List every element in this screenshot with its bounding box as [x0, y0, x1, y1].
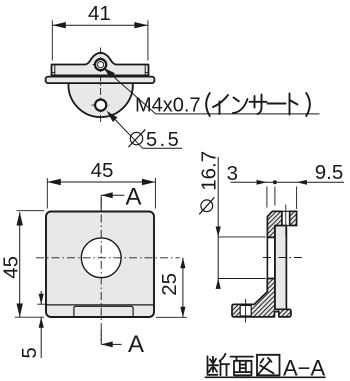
dimension 16.7: extension lines — [218, 237, 266, 279]
dimension 3/9.5 extension lines — [267, 187, 297, 210]
svg-text:16.7: 16.7 — [198, 151, 221, 191]
leader M4: arrow — [103, 68, 115, 79]
top view: horizontal centerline of M4 hole — [93, 64, 109, 66]
dimension 41: extension lines — [52, 20, 148, 60]
katakana n — [233, 98, 248, 114]
dimension 45 left: extension lines — [15, 211, 44, 318]
dimension dot terminator — [273, 180, 277, 184]
diameter symbol for 5.5 — [128, 129, 145, 147]
center hole — [81, 238, 121, 278]
section arrow A bottom — [101, 343, 121, 345]
katakana sa — [250, 95, 267, 115]
section: hole wall vertical edges through hole band — [267, 237, 275, 278]
section: slot centerline — [245, 299, 247, 323]
top view: horizontal centerline of 5.5 hole — [92, 104, 110, 106]
dimension 41: dimension line — [52, 24, 148, 26]
section: hole edges in plate — [267, 237, 275, 278]
section arrow A top — [101, 194, 124, 196]
top view: 5.5 hole bold circle — [95, 100, 106, 111]
leader M4: polyline — [105, 69, 320, 114]
section title: kanji 断面図 drawn as strokes — [208, 354, 280, 376]
katakana long dash — [268, 103, 286, 105]
svg-text:M4x0.7: M4x0.7 — [135, 95, 201, 117]
svg-text:A: A — [128, 331, 144, 358]
dimension 45 top: arrows — [47, 179, 61, 185]
section title underline — [205, 376, 326, 378]
svg-text:41: 41 — [88, 2, 111, 25]
katakana i — [213, 95, 228, 114]
section: M4 hole centerline — [285, 205, 287, 237]
dimension 5: dim line segments — [40, 291, 42, 358]
leader 5.5: polyline — [108, 113, 182, 149]
svg-text:A: A — [126, 184, 142, 211]
fullwidth close paren — [306, 93, 310, 116]
dimension 45 left: dim line — [19, 212, 21, 317]
top view: left end cap line — [52, 65, 55, 76]
label katakana (insert) drawn as strokes — [206, 93, 310, 116]
square plate — [46, 212, 154, 318]
section: foot slot (white) — [240, 305, 251, 316]
svg-text:45: 45 — [91, 159, 114, 182]
diameter symbol for 16.7 — [199, 197, 214, 214]
svg-text:45: 45 — [0, 256, 23, 279]
top view: dome (roller) below flange — [68, 83, 132, 117]
section: arm right block (hatched) — [290, 211, 297, 225]
top view: right end cap line — [145, 65, 148, 76]
leader 5.5: arrow — [106, 111, 117, 122]
dimension 3 / 9.5: dim line — [231, 181, 345, 183]
dimension 25 right: extension line bottom — [156, 316, 187, 318]
kanji men (face) — [231, 357, 254, 376]
svg-text:25: 25 — [158, 273, 181, 296]
dimension 41: right arrow — [134, 22, 148, 28]
top view body: bar with hump silhouette — [52, 53, 149, 76]
kanji zu (drawing) — [257, 355, 280, 376]
svg-text:9.5: 9.5 — [315, 161, 344, 184]
dimension 5: arrows (outside) — [39, 294, 44, 305]
svg-text:5.5: 5.5 — [146, 129, 181, 151]
section: plate lower piece + foot (hatched) — [232, 279, 291, 317]
svg-text:3: 3 — [227, 162, 238, 185]
dimension 45 top: extension lines — [47, 178, 155, 209]
dimension 41: left arrow — [52, 22, 66, 28]
svg-text:5: 5 — [18, 347, 41, 358]
dimension 25 right: dim line — [182, 258, 184, 318]
dimension 16.7: dim line — [217, 157, 219, 288]
section: background strip (uncut visible body) — [275, 226, 287, 310]
katakana to — [290, 94, 298, 115]
horizontal centerline — [36, 257, 180, 259]
bottom groove outline — [74, 306, 133, 317]
section: top piece plate+arm (hatched) — [267, 211, 282, 237]
dimension 45 left: arrows — [17, 212, 23, 226]
dimension 3: right-pointing arrow — [257, 180, 267, 185]
dimension 9.5: left-pointing arrow — [297, 180, 307, 185]
top view: flange strip — [46, 77, 155, 84]
vertical centerline / section trace — [100, 199, 102, 341]
dimension 25 right: arrows — [180, 258, 185, 269]
dimension 45 top: dim line — [47, 181, 155, 183]
top view: M4 boss outer bold circle — [95, 59, 106, 70]
fullwidth open paren — [206, 93, 210, 116]
dimension 5: extension line at step — [37, 303, 45, 305]
top view: vertical centerline — [100, 48, 102, 123]
dimension 16.7: arrows (outside) — [216, 227, 221, 237]
top view: M4 thread inner circle — [98, 62, 104, 68]
section: arm top/bottom edge lines across hole — [282, 211, 290, 225]
section: horizontal centerline — [263, 257, 303, 259]
kanji dan (cut) — [208, 356, 219, 375]
bottom step line — [46, 304, 154, 306]
